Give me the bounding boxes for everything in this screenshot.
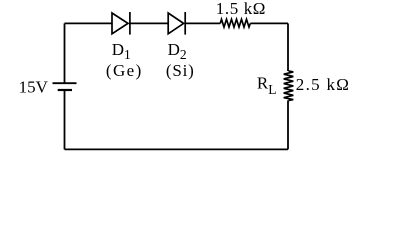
- svg-text:D2: D2: [168, 40, 187, 62]
- wire: D2 cathode to series resistor: [185, 22, 220, 24]
- diode D1 (triangle anode + cathode bar): [112, 12, 130, 35]
- svg-text:(Si): (Si): [166, 61, 195, 80]
- wire: left vertical from battery positive plate up to top-left corner: [64, 23, 66, 83]
- svg-text:RL: RL: [257, 74, 277, 97]
- svg-text:15V: 15V: [19, 78, 49, 97]
- wire: resistor R1 to top-right corner: [250, 22, 288, 24]
- wire: top left horizontal, top-left corner to D1 anode: [65, 22, 113, 24]
- diode D2 (triangle anode + cathode bar): [168, 12, 185, 35]
- wire: left vertical from bottom-left corner up to battery negative plate: [64, 90, 66, 149]
- wire: bottom horizontal return: [65, 148, 289, 150]
- wire: right vertical from top-right corner down to RL: [287, 23, 289, 71]
- resistor RL zigzag: [284, 71, 294, 101]
- svg-text:1.5 kΩ: 1.5 kΩ: [216, 0, 266, 18]
- wire: between D1 cathode and D2 anode: [130, 22, 168, 24]
- resistor R1 1.5 kOhm zigzag: [220, 19, 250, 27]
- wire: RL down to bottom-right corner: [287, 100, 289, 149]
- svg-text:(Ge): (Ge): [106, 61, 143, 80]
- svg-text:D1: D1: [112, 40, 131, 62]
- svg-text:2.5 kΩ: 2.5 kΩ: [296, 75, 350, 94]
- battery V1 long plate (positive terminal): [53, 82, 77, 84]
- battery V1 short plate (negative terminal): [58, 89, 72, 91]
